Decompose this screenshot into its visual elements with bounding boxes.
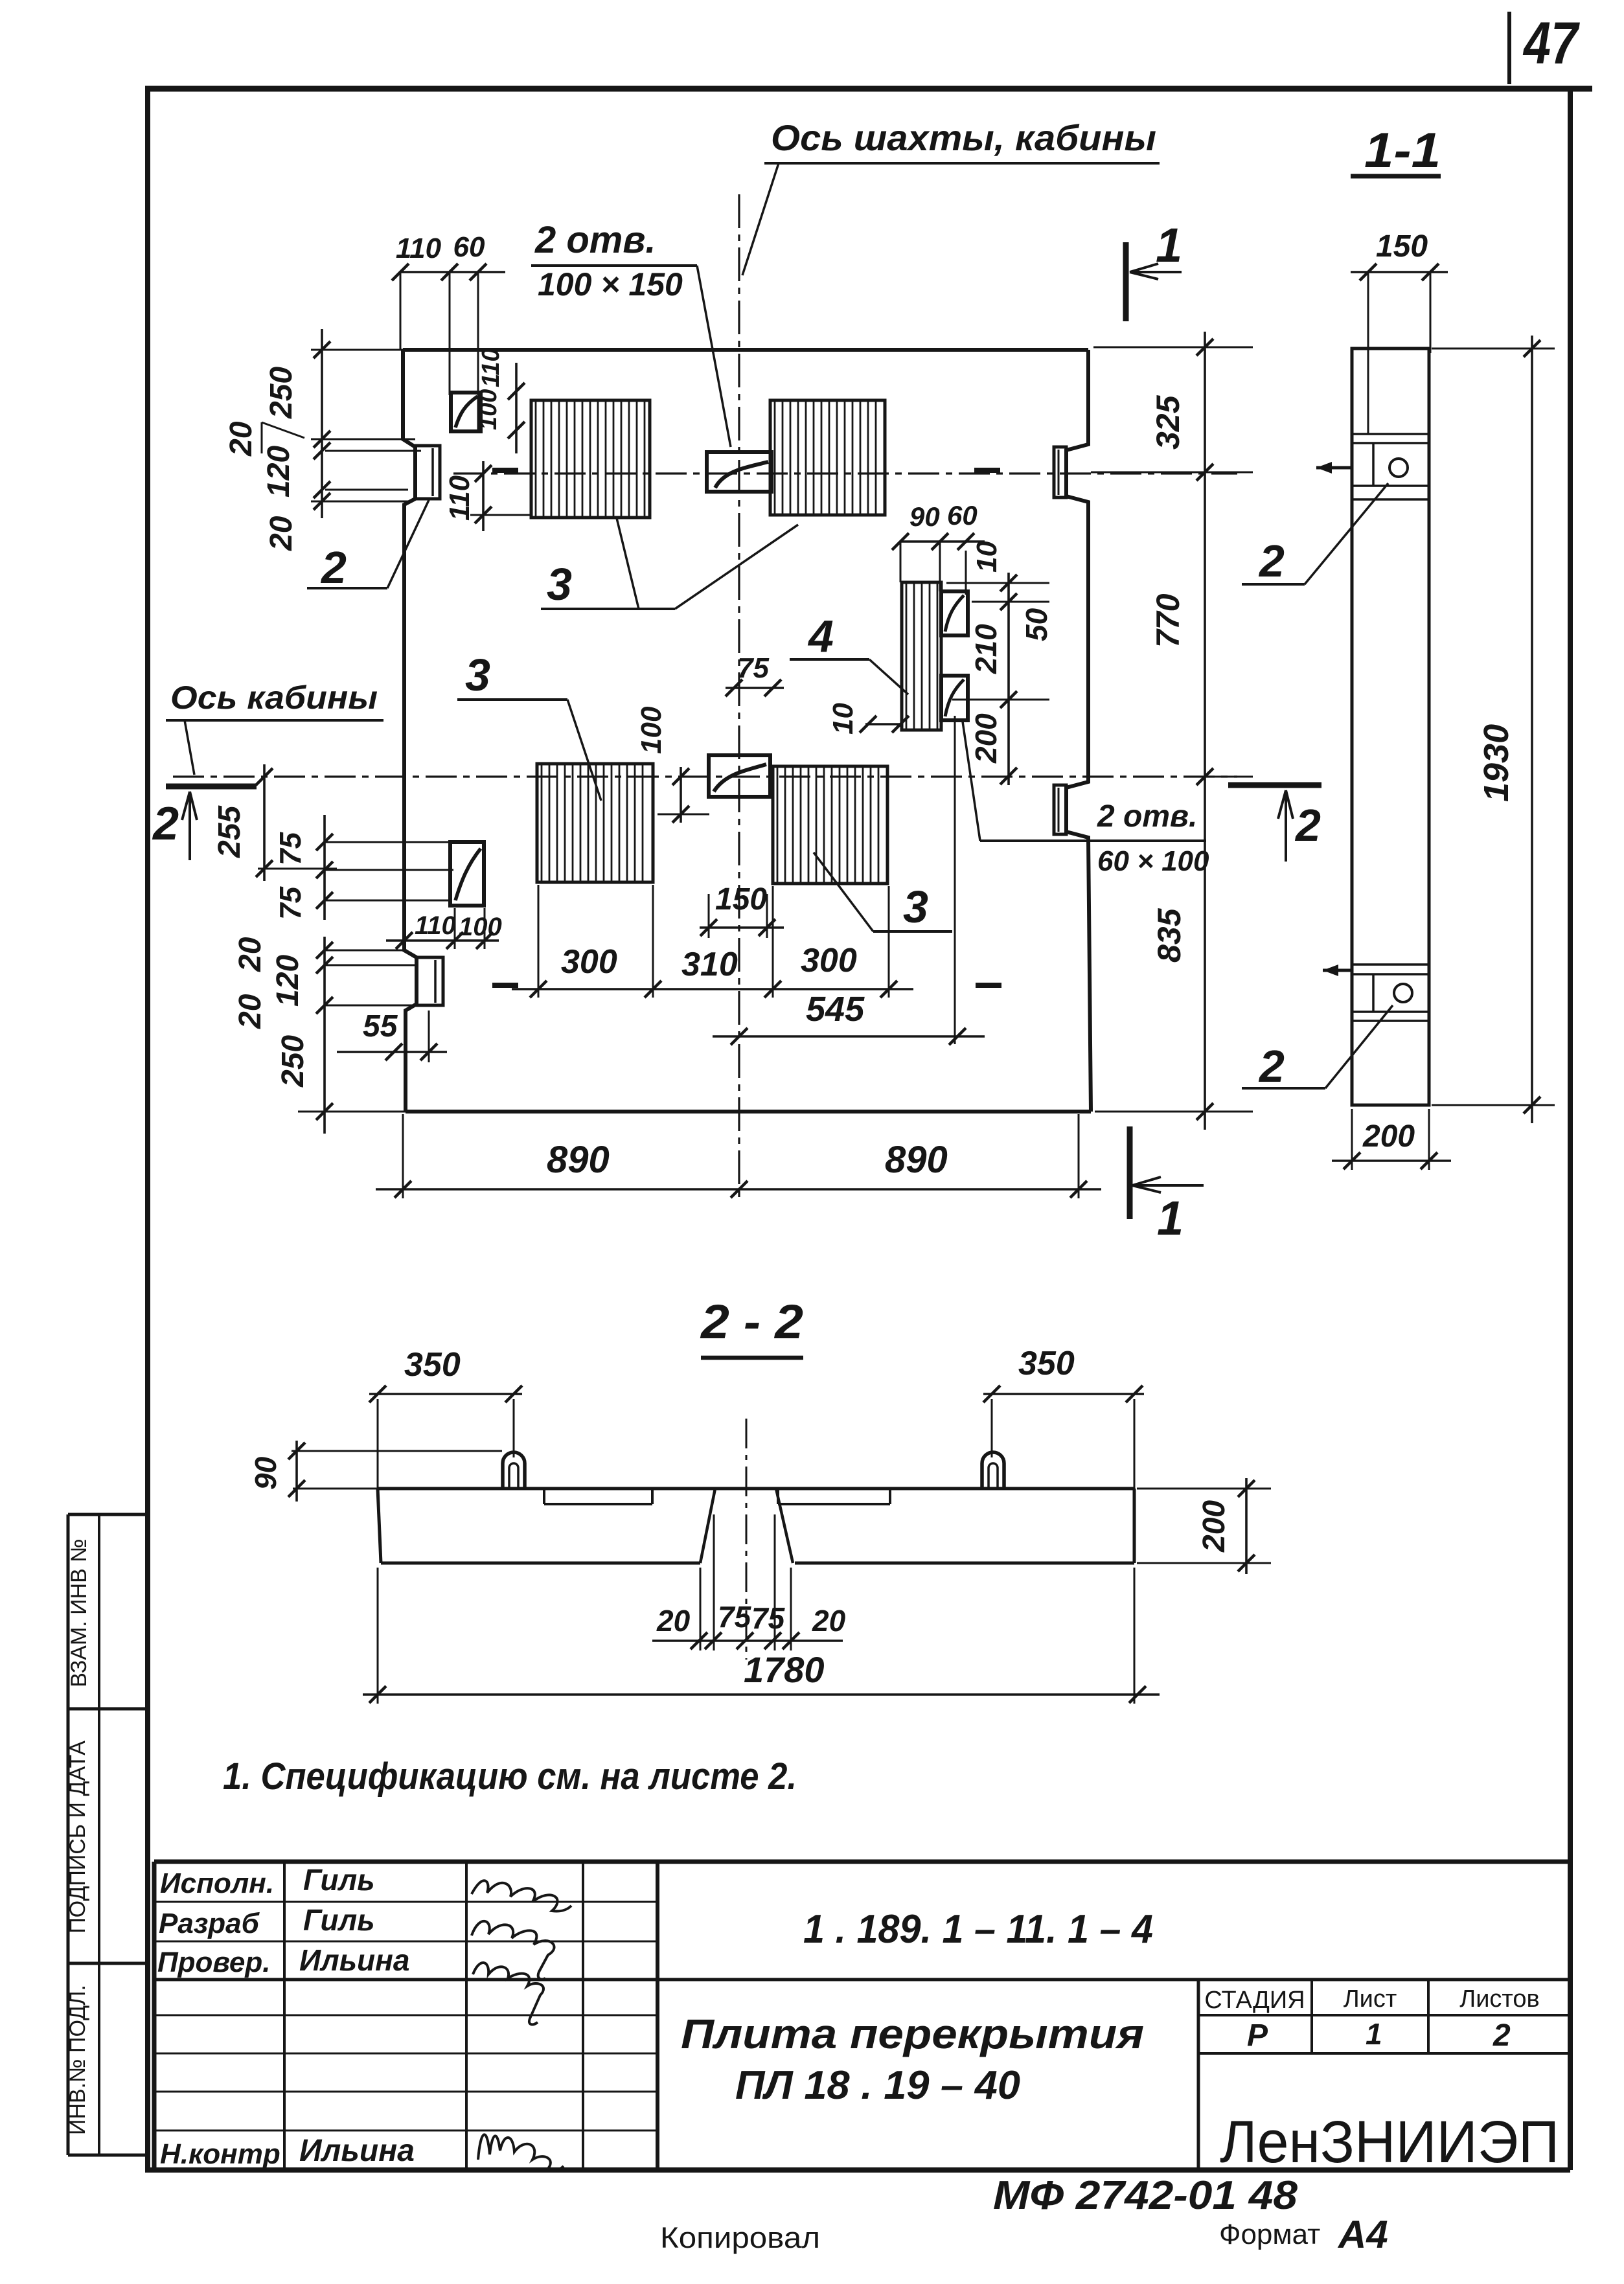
svg-text:Ильина: Ильина [299,2134,415,2168]
svg-text:120: 120 [262,446,296,497]
svg-text:1: 1 [1157,1191,1184,1245]
svg-text:50: 50 [1020,608,1053,641]
svg-text:60: 60 [453,231,485,263]
svg-text:Копировал: Копировал [660,2221,820,2254]
svg-text:ИНВ.№ ПОДЛ.: ИНВ.№ ПОДЛ. [65,1985,90,2135]
svg-text:1. Спецификацию см. на листе 2: 1. Спецификацию см. на листе 2. [223,1755,797,1798]
svg-text:47: 47 [1522,10,1580,76]
svg-text:3: 3 [465,650,490,700]
svg-text:150: 150 [715,882,767,917]
svg-text:1780: 1780 [744,1649,825,1690]
svg-text:120: 120 [271,955,305,1007]
svg-text:75: 75 [273,831,307,865]
svg-text:100: 100 [475,389,502,430]
svg-text:250: 250 [276,1035,310,1088]
svg-text:890: 890 [885,1139,948,1181]
svg-text:Ось шахты, кабины: Ось шахты, кабины [771,117,1156,158]
svg-text:СТАДИЯ: СТАДИЯ [1204,1987,1305,2014]
svg-text:Разраб: Разраб [159,1908,260,1939]
svg-text:20: 20 [264,516,299,551]
svg-text:90: 90 [909,501,940,532]
svg-text:Лист: Лист [1344,1985,1397,2013]
svg-text:Исполн.: Исполн. [160,1867,274,1899]
svg-text:4: 4 [807,611,834,661]
svg-text:2: 2 [320,542,347,593]
svg-text:20: 20 [233,994,268,1029]
svg-text:1 . 189. 1 – 11. 1 – 4: 1 . 189. 1 – 11. 1 – 4 [803,1907,1153,1952]
svg-text:150: 150 [1376,229,1428,264]
svg-text:890: 890 [547,1139,610,1181]
svg-text:90: 90 [249,1456,282,1490]
svg-text:10: 10 [827,703,859,735]
svg-text:200: 200 [1362,1119,1415,1154]
svg-text:3: 3 [547,559,572,610]
svg-text:20: 20 [224,421,258,457]
svg-text:545: 545 [806,990,865,1029]
svg-text:Р: Р [1247,2018,1268,2053]
svg-text:75: 75 [751,1601,786,1635]
svg-text:1930: 1930 [1477,724,1516,802]
svg-text:10: 10 [971,541,1003,573]
svg-text:2: 2 [152,798,179,850]
svg-text:55: 55 [363,1009,398,1044]
svg-text:2: 2 [1258,1041,1285,1091]
svg-text:ЛенЗНИИЭП: ЛенЗНИИЭП [1220,2109,1559,2175]
svg-text:100 × 150: 100 × 150 [538,266,683,303]
svg-text:300: 300 [561,943,617,981]
svg-text:Провер.: Провер. [157,1947,270,1978]
svg-text:100: 100 [635,706,667,754]
svg-text:110: 110 [477,348,505,387]
svg-text:ПЛ 18 . 19 – 40: ПЛ 18 . 19 – 40 [735,2063,1020,2108]
svg-text:250: 250 [264,367,299,419]
svg-text:350: 350 [1018,1345,1075,1382]
svg-text:2: 2 [1258,536,1285,586]
svg-text:2: 2 [1492,2018,1511,2053]
svg-text:1-1: 1-1 [1364,123,1441,178]
svg-text:75: 75 [718,1600,752,1634]
svg-text:2 - 2: 2 - 2 [700,1295,803,1349]
svg-text:А4: А4 [1337,2213,1388,2256]
svg-text:20: 20 [233,937,268,972]
svg-text:Ильина: Ильина [299,1943,409,1977]
svg-text:1: 1 [1156,218,1182,272]
svg-text:110: 110 [444,475,475,521]
svg-text:200: 200 [1197,1500,1231,1553]
svg-text:Формат: Формат [1219,2219,1320,2250]
svg-text:310: 310 [681,946,738,983]
svg-text:2: 2 [1294,800,1321,851]
svg-text:100: 100 [459,913,502,941]
svg-text:255: 255 [212,805,247,858]
svg-text:110: 110 [415,911,456,940]
svg-text:60 × 100: 60 × 100 [1097,845,1209,877]
svg-text:110: 110 [396,233,442,264]
svg-text:20: 20 [656,1604,691,1638]
svg-text:200: 200 [969,713,1003,764]
svg-text:Н.контр: Н.контр [160,2138,280,2170]
svg-text:300: 300 [801,942,857,979]
svg-text:МФ 2742-01 48: МФ 2742-01 48 [993,2173,1298,2218]
svg-text:Гиль: Гиль [303,1863,375,1897]
svg-text:Листов: Листов [1459,1985,1539,2013]
svg-text:Гиль: Гиль [303,1903,375,1937]
svg-text:210: 210 [969,624,1003,674]
svg-text:350: 350 [404,1346,461,1384]
svg-text:ВЗАМ. ИНВ №: ВЗАМ. ИНВ № [67,1538,91,1687]
svg-text:Ось кабины: Ось кабины [170,679,378,716]
svg-text:3: 3 [903,882,928,932]
svg-text:770: 770 [1150,593,1186,648]
svg-text:1: 1 [1366,2017,1382,2051]
svg-text:ПОДПИСЬ И ДАТА: ПОДПИСЬ И ДАТА [65,1741,90,1934]
svg-text:835: 835 [1151,908,1187,963]
svg-text:2 отв.: 2 отв. [534,219,656,261]
svg-text:325: 325 [1150,394,1186,450]
svg-text:60: 60 [947,500,978,531]
svg-text:20: 20 [812,1604,846,1638]
svg-text:Плита перекрытия: Плита перекрытия [681,2011,1144,2057]
svg-text:75: 75 [273,885,307,920]
svg-text:2 отв.: 2 отв. [1097,799,1197,834]
